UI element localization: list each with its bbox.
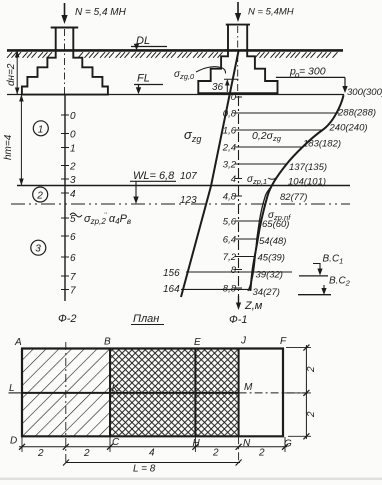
svg-text:2: 2 <box>306 411 317 418</box>
right dimension line <box>305 345 307 439</box>
svg-text:0,8: 0,8 <box>223 109 237 120</box>
plan vertical E-H <box>194 349 196 437</box>
B.C2 mark <box>298 276 351 296</box>
plan hatch region B-E-J-N-H-C <box>110 349 239 437</box>
svg-text:300(300): 300(300) <box>347 87 382 98</box>
FL base line <box>7 94 344 96</box>
plan F-2 axis dash-dot <box>65 342 67 463</box>
svg-text:B: B <box>104 337 111 348</box>
foundation F-1 outline <box>198 25 277 94</box>
p0 arrow down <box>342 77 347 93</box>
FL level mark <box>134 73 163 95</box>
svg-text:3: 3 <box>35 244 41 255</box>
svg-text:7: 7 <box>70 272 76 283</box>
left axis ticks <box>61 115 69 290</box>
svg-text:288(288): 288(288) <box>337 108 376 119</box>
plan hatch region A-B-C-D <box>22 349 110 437</box>
plan M dash-dot extension <box>239 392 308 394</box>
layer boundary dash-dot <box>11 203 350 205</box>
label Plan title <box>131 313 164 325</box>
ground line DL <box>7 49 343 52</box>
sigma_zp,1 label <box>247 174 277 186</box>
svg-text:183(182): 183(182) <box>303 139 341 150</box>
bottom dimension line 1 <box>19 446 287 448</box>
svg-text:FL: FL <box>137 73 150 85</box>
svg-text:2: 2 <box>69 162 76 173</box>
svg-text:0: 0 <box>70 130 76 141</box>
svg-text:36: 36 <box>212 82 224 93</box>
bottom dimension values <box>37 448 265 460</box>
p0 = 300 label <box>276 66 345 80</box>
level line z=8 <box>186 271 292 273</box>
value 36 marker <box>212 79 239 93</box>
svg-text:6: 6 <box>70 232 76 243</box>
svg-text:0: 0 <box>231 92 237 103</box>
svg-text:104(101): 104(101) <box>288 177 326 188</box>
Z axis right <box>238 96 240 302</box>
svg-text:54(48): 54(48) <box>259 236 286 247</box>
svg-text:E: E <box>194 337 201 348</box>
svg-text:164: 164 <box>163 284 180 295</box>
svg-text:7,2: 7,2 <box>223 252 237 263</box>
layer circle 2 <box>33 187 48 202</box>
foundation F-2 centerline <box>64 29 66 95</box>
svg-text:N = 5,4МН: N = 5,4МН <box>248 7 294 18</box>
bottom dimension extension lines <box>22 437 285 452</box>
svg-text:= 300: = 300 <box>299 66 326 78</box>
plan L extension <box>9 392 23 394</box>
right axis depth labels <box>222 92 237 295</box>
top corner line of diagram <box>343 94 345 95</box>
svg-text:hт=4: hт=4 <box>3 134 14 160</box>
svg-text:45(39): 45(39) <box>258 253 285 264</box>
plan middle line L-M <box>22 392 239 394</box>
svg-text:2: 2 <box>83 448 90 459</box>
svg-text:2,4: 2,4 <box>222 143 236 154</box>
sigma_zg values left <box>163 171 197 295</box>
svg-text:82(77): 82(77) <box>280 192 307 203</box>
svg-text:2: 2 <box>36 191 43 202</box>
sigma_zp nf curve <box>248 188 270 291</box>
svg-text:4: 4 <box>149 448 155 459</box>
svg-text:156: 156 <box>163 268 180 279</box>
load arrow N left <box>61 3 67 24</box>
stress level lines <box>239 113 340 257</box>
svg-text:dн=2: dн=2 <box>6 63 17 86</box>
svg-text:4,8: 4,8 <box>223 192 237 203</box>
svg-text:Ф-2: Ф-2 <box>58 313 77 325</box>
label sigma_zp2 = a4 Pv <box>70 213 131 226</box>
svg-text:L = 8: L = 8 <box>133 464 156 475</box>
plan F-1 axis extension below <box>238 436 240 463</box>
closing line z=8.8 <box>181 288 250 290</box>
ground hatch ticks <box>7 52 338 58</box>
svg-text:1: 1 <box>70 144 76 155</box>
svg-text:1: 1 <box>38 124 44 135</box>
svg-text:137(135): 137(135) <box>289 162 327 173</box>
svg-text:2: 2 <box>37 448 44 459</box>
plan vertical J-N <box>238 349 240 437</box>
layer circle 3 <box>31 240 46 255</box>
svg-text:L: L <box>9 383 15 394</box>
svg-text:8: 8 <box>231 265 237 276</box>
svg-text:D: D <box>10 436 17 447</box>
sigma_zp curve <box>250 95 343 291</box>
svg-text:0: 0 <box>70 111 76 122</box>
svg-text:65(60): 65(60) <box>262 219 289 230</box>
svg-text:A: A <box>14 337 22 348</box>
foundation F-1 centerline <box>237 26 239 95</box>
svg-text:7: 7 <box>70 286 76 297</box>
left axis <box>64 95 66 301</box>
dimension line L=8 <box>66 462 240 464</box>
svg-text:F: F <box>280 336 287 347</box>
right dimension extension lines <box>283 348 311 437</box>
svg-text:123: 123 <box>180 195 197 206</box>
svg-text:2: 2 <box>258 448 265 459</box>
svg-text:240(240): 240(240) <box>329 123 368 134</box>
svg-text:План: План <box>133 313 159 325</box>
svg-text:3,2: 3,2 <box>223 160 237 171</box>
svg-text:34(27): 34(27) <box>253 287 280 298</box>
sigma_zp values right <box>253 87 382 298</box>
plan vertical B-C <box>109 349 111 437</box>
svg-text:6: 6 <box>70 253 76 264</box>
WL label <box>130 170 176 204</box>
left axis labels <box>69 111 76 297</box>
svg-text:Z,м: Z,м <box>244 300 263 312</box>
B.C1 mark <box>299 254 343 276</box>
right dimension slash ticks <box>303 345 309 440</box>
svg-text:2: 2 <box>212 448 219 459</box>
plan outer rectangle <box>22 349 283 437</box>
svg-text:39(32): 39(32) <box>256 270 283 281</box>
dimension h1=4 <box>3 95 24 186</box>
sigma_zg,0 label <box>174 67 226 81</box>
svg-text:2: 2 <box>306 366 317 373</box>
svg-text:107: 107 <box>180 171 197 182</box>
svg-text:Ф-1: Ф-1 <box>229 314 248 326</box>
dimension slash ticks row 1 <box>19 444 288 450</box>
svg-text:N: N <box>243 438 251 449</box>
foundation F-2 outline <box>22 28 108 95</box>
load arrow N right <box>235 2 241 22</box>
svg-text:N = 5,4 МН: N = 5,4 МН <box>75 7 127 18</box>
svg-text:H: H <box>193 438 201 449</box>
svg-text:WL= 6,8: WL= 6,8 <box>133 170 175 182</box>
svg-text:M: M <box>244 382 253 393</box>
dimension dn=2 <box>6 50 20 94</box>
scan edge artifact <box>0 478 382 480</box>
DL level mark <box>131 35 167 50</box>
svg-text:5,6: 5,6 <box>223 217 237 228</box>
svg-text:3: 3 <box>70 175 76 186</box>
svg-text:J: J <box>240 336 247 347</box>
svg-text:1,6: 1,6 <box>223 126 237 137</box>
svg-text:6,4: 6,4 <box>223 235 236 246</box>
sigma_zg diagonal <box>181 51 239 297</box>
plan corner labels <box>9 336 292 450</box>
WL line <box>17 185 350 187</box>
right axis ticks <box>235 97 242 288</box>
layer circle 1 <box>33 121 48 136</box>
svg-text:4: 4 <box>70 189 76 200</box>
svg-text:4: 4 <box>231 174 236 185</box>
svg-text:5: 5 <box>70 214 76 225</box>
